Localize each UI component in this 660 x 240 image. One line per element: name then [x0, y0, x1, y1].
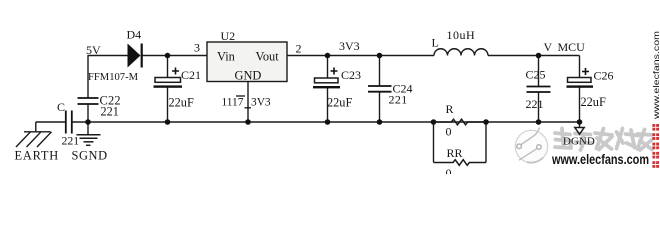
node junction dot diode-C21 — [165, 53, 171, 59]
svg-text:C21: C21 — [181, 68, 201, 82]
wire U2 Vout to 3V3 node and to inductor — [287, 55, 434, 57]
node junction dot R-right — [483, 119, 489, 125]
label 1117_3V3 — [222, 96, 271, 109]
svg-text:22uF: 22uF — [581, 95, 606, 109]
svg-text:RR: RR — [447, 146, 463, 160]
svg-text:www.elecfans.com: www.elecfans.com — [551, 152, 649, 167]
svg-text:C25: C25 — [526, 68, 546, 82]
svg-text:3: 3 — [194, 41, 200, 55]
node junction dot U2 GND-bottom — [245, 119, 251, 125]
svg-text:Vin: Vin — [217, 50, 235, 64]
ground DGND — [563, 128, 595, 148]
node V MCU — [536, 40, 585, 58]
node junction dot C21-bottom — [165, 119, 171, 125]
svg-text:Vout: Vout — [256, 50, 280, 64]
wire DGND stub — [579, 122, 581, 128]
wire C26 branch — [579, 56, 581, 78]
resistor R — [434, 102, 487, 139]
capacitor C22 — [78, 94, 121, 119]
svg-text:0: 0 — [446, 166, 452, 174]
wire U2 GND pin — [247, 82, 249, 123]
svg-text:EARTH: EARTH — [15, 149, 60, 163]
wire C22 branch — [87, 56, 89, 99]
svg-text:3V3: 3V3 — [251, 97, 271, 109]
capacitor C21 — [154, 68, 202, 110]
svg-text:SGND: SGND — [72, 149, 108, 163]
svg-text:0: 0 — [446, 125, 452, 139]
wire EARTH stub — [35, 122, 37, 132]
ground EARTH — [16, 132, 52, 147]
wire C23 branch — [327, 56, 329, 79]
capacitor C26 — [567, 68, 614, 109]
svg-text:221: 221 — [101, 105, 119, 119]
node 3V3 — [325, 39, 360, 58]
node junction dot C25-bottom — [536, 119, 542, 125]
wire diode cathode to U2 Vin — [142, 55, 208, 57]
resistor RR — [434, 146, 487, 180]
op-amp regulator U2 — [207, 29, 287, 82]
wire C21 branch — [167, 56, 169, 78]
node junction dot DGND — [577, 119, 583, 125]
capacitor C25 — [526, 68, 551, 112]
svg-text:5V: 5V — [86, 43, 101, 57]
svg-text:MCU: MCU — [558, 40, 586, 54]
watermark logo badge circle — [515, 128, 547, 163]
svg-text:GND: GND — [235, 68, 262, 82]
char 发 — [595, 129, 612, 150]
svg-text:221: 221 — [62, 134, 80, 148]
svg-text:C23: C23 — [341, 68, 361, 82]
watermark red vertical site text on right edge — [652, 31, 660, 168]
char 电 — [555, 129, 571, 149]
node junction dot C23-bottom — [325, 119, 331, 125]
svg-text:2: 2 — [296, 42, 302, 56]
svg-text:10uH: 10uH — [447, 28, 476, 42]
watermark chinese characters 电子发烧友 (approximated strokes) — [555, 129, 653, 151]
svg-text:U2: U2 — [221, 29, 236, 43]
wire inductor to V MCU node and corner to C26 — [488, 55, 580, 57]
ground SGND — [77, 135, 101, 146]
diode D4 — [88, 28, 143, 84]
capacitor C (horizontal) — [57, 100, 79, 148]
svg-text:221: 221 — [526, 97, 544, 111]
svg-text:D4: D4 — [127, 28, 142, 42]
wire RR right drop — [485, 122, 487, 163]
char 烧 — [617, 129, 639, 149]
svg-text:DGND: DGND — [563, 135, 595, 147]
wire bottom rail (cap C to DGND) — [72, 121, 580, 123]
svg-text:FFM107-M: FFM107-M — [88, 72, 139, 83]
wire bottom rail left (EARTH to cap C) — [36, 121, 66, 123]
svg-text:1117: 1117 — [222, 97, 244, 109]
wire SGND stub — [87, 122, 89, 135]
svg-text:22uF: 22uF — [169, 96, 194, 110]
wire C24 branch — [379, 56, 381, 87]
char 友 — [638, 130, 653, 151]
svg-text:R: R — [446, 102, 454, 116]
inductor L — [432, 28, 489, 56]
svg-text:22uF: 22uF — [327, 96, 352, 110]
svg-text:www.elecfans.com: www.elecfans.com — [652, 31, 660, 121]
svg-text:3V3: 3V3 — [339, 39, 360, 53]
svg-text:C26: C26 — [594, 69, 614, 83]
svg-text:L: L — [432, 36, 439, 50]
char 子 — [575, 134, 593, 151]
wire RR left drop — [433, 122, 435, 163]
svg-text:C: C — [57, 100, 65, 114]
svg-text:V: V — [544, 40, 553, 54]
svg-text:221: 221 — [389, 93, 408, 107]
capacitor C24 — [368, 53, 413, 107]
node junction dot C22-bottom — [85, 119, 91, 125]
main schematic — [36, 56, 580, 163]
capacitor C23 — [313, 68, 361, 110]
wire top rail 5V to diode — [88, 55, 128, 57]
wire C25 branch — [538, 56, 540, 87]
node junction dot R-left — [431, 119, 437, 125]
node junction dot C24-bottom — [377, 119, 383, 125]
